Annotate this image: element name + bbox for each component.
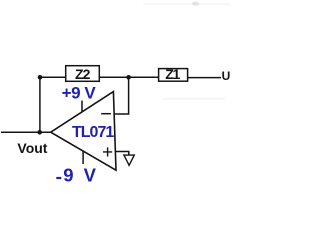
svg-text:U: U: [222, 69, 231, 83]
faint artifact band middle right: [163, 98, 225, 100]
wire feedback vertical left: [39, 77, 41, 132]
svg-text:TL071: TL071: [72, 124, 114, 141]
faint artifact line top: [144, 3, 231, 6]
impedance Z1 box: [159, 69, 188, 82]
wire output horizontal: [1, 131, 51, 133]
svg-text:+9 V: +9 V: [62, 84, 97, 103]
wire inverting input: [114, 80, 129, 115]
svg-text:Vout: Vout: [17, 140, 47, 156]
node feedback left dot: [38, 75, 43, 80]
wire Z2 to Z1: [99, 76, 158, 78]
wire V- pin: [82, 151, 84, 164]
wire V+ pin: [81, 101, 83, 113]
svg-text:Z2: Z2: [75, 66, 91, 82]
inverting input minus marker: [101, 113, 111, 115]
wire Z1 to U: [188, 77, 221, 79]
non-inverting input plus marker: [103, 147, 112, 156]
svg-text:V: V: [84, 164, 97, 183]
op-amp U1 triangle TL071: [51, 92, 116, 171]
ground symbol: [124, 155, 134, 165]
svg-text:9: 9: [63, 164, 73, 183]
impedance Z2 box: [66, 66, 100, 82]
svg-text:Z1: Z1: [165, 66, 180, 82]
wire node to Z2: [40, 76, 66, 78]
node inverting branch dot: [126, 75, 131, 80]
label -9 V supply minus dash: [56, 177, 61, 179]
wire non-inverting input: [115, 152, 128, 156]
node output junction dot: [37, 130, 42, 135]
